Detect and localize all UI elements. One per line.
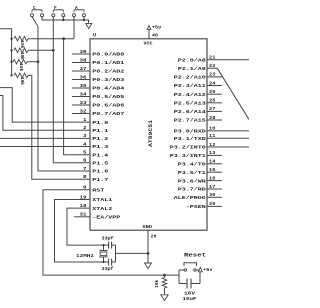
svg-text:P0.1/AD1: P0.1/AD1 [92,60,124,66]
pin stub P3 pin 17 [207,188,222,190]
svg-text:10k: 10k [19,40,24,48]
svg-text:+5v: +5v [203,267,213,273]
svg-text:40: 40 [152,32,158,38]
svg-text:AT89C51: AT89C51 [148,120,154,147]
svg-text:P2.1/A9: P2.1/A9 [178,66,206,72]
pin stub P2 pin 27 [207,110,222,112]
wire SW3 right stub [83,17,85,20]
junction SW2-rail [62,19,64,21]
svg-text:A: A [75,5,78,11]
svg-text:+5v: +5v [152,25,162,31]
svg-text:P2.4/A12: P2.4/A12 [174,92,206,98]
junction SW3-rail [83,19,85,21]
pin stub P0.0 pin 39 [72,53,90,55]
svg-text:P1.0: P1.0 [92,120,108,126]
svg-text:P2.0/A8: P2.0/A8 [178,57,206,63]
svg-text:P2.2/A10: P2.2/A10 [174,75,206,81]
svg-text:F: F [54,5,57,11]
ground symbol below pin 20 [145,263,152,269]
svg-text:P2.7/A15: P2.7/A15 [174,118,206,124]
svg-text:ALE/PROG: ALE/PROG [174,195,206,201]
pin stub P2 pin 23 [207,76,222,78]
svg-text:33pf: 33pf [102,266,114,272]
svg-text:P3.1/TXD: P3.1/TXD [174,136,206,142]
pin stub P3 pin 15 [207,171,222,173]
ground symbol below R5 [161,295,168,301]
svg-text:16V: 16V [184,290,195,296]
svg-text:P1.1: P1.1 [92,128,108,134]
pin stub P3 pin 14 [207,163,222,165]
pin stub -EA/VPP pin 31 [74,216,90,218]
IC U1 AT89C51 microcontroller body [90,39,207,230]
resistor R2 body [14,48,28,53]
svg-text:P0.2/AD2: P0.2/AD2 [92,69,124,75]
wire R2 to switch2 vertical [28,49,53,51]
pin stub P0.3 pin 36 [72,79,90,81]
wire net P1.6 vertical [38,62,90,171]
wire R3 to switch1 vertical [27,61,38,63]
svg-text:10uF: 10uF [183,296,197,302]
svg-text:P1.4: P1.4 [92,152,108,158]
svg-text:P0.4/AD4: P0.4/AD4 [92,86,124,92]
svg-text:P3.7/RD: P3.7/RD [178,187,206,193]
pin stub P3 pin 13 [207,154,222,156]
capacitor C2 33pf bottom [104,261,109,263]
wire GND pin 20 down [147,230,149,263]
wire P1.3 from left edge [0,146,90,148]
wire P1.1 from left edge [0,96,90,131]
svg-text:Reset: Reset [184,252,206,258]
junction crystal bottom [102,261,104,263]
svg-text:P3.6/WR: P3.6/WR [178,178,206,184]
svg-text:P1.3: P1.3 [92,144,108,150]
pin stub ALE/PROG pin 30 [207,196,222,198]
pin stub -PSEN pin 29 [207,205,222,207]
pin stub P0.6 pin 33 [72,104,90,106]
wire P3.2 pin 12 to right edge [207,146,249,148]
wire XTAL1 pin 19 route [55,200,104,263]
wire P3.1 pin 11 to right edge [207,137,249,139]
capacitor C3 10uF [179,283,187,285]
pin stub P3 pin 16 [207,180,222,182]
resistor R5 10k vertical [164,275,166,277]
resistor R4 body [14,73,28,78]
pin stub P2 pin 28 [207,119,222,121]
svg-text:P1.2: P1.2 [92,136,108,142]
wire P1.0 from left edge [0,88,90,123]
wire switch ground rail [42,17,89,24]
junction R2-switch2 [52,49,55,52]
svg-text:P3.3/INT1: P3.3/INT1 [170,153,206,159]
svg-text:10k: 10k [19,52,24,60]
svg-text:10k: 10k [19,77,24,85]
ground symbol switches [86,23,92,28]
pin stub P2 pin 24 [207,85,222,87]
pin stub P0.1 pin 38 [72,62,90,64]
switch SW1 (label C) [31,14,34,17]
wire SW2 left vertical / net P1.5 [53,17,90,163]
junction bus-R4 [11,74,13,76]
svg-text:XTAL1: XTAL1 [92,197,112,203]
svg-text:GND: GND [143,224,153,230]
svg-text:P0.0/AD0: P0.0/AD0 [92,52,124,58]
svg-text:XTAL2: XTAL2 [92,206,112,212]
wire P1.2 from left edge [0,137,90,139]
junction button right - +5v [199,269,202,272]
svg-text:VCC: VCC [144,40,153,46]
svg-text:P0.3/AD3: P0.3/AD3 [92,77,124,83]
resistor R3 body [13,59,27,64]
crystal X1 12MHz vertical [103,245,105,250]
wire SW3 left vertical [73,17,75,39]
resistor R1 body [14,36,28,41]
wire RST pin 9 long route [43,190,179,275]
pin stub P0.2 pin 37 [72,70,90,72]
wire power feed from left edge to bus [0,29,12,76]
push button Reset [179,269,184,271]
power +5v symbol at VCC [147,26,151,30]
pin stub P2 pin 26 [207,102,222,104]
junction crystal top [102,244,104,246]
pin stub P0.7 pin 32 [72,113,90,115]
junction node pin20-crystal [147,252,150,255]
junction bus-R2 [11,49,13,51]
junction bus-R3 [11,61,13,63]
wire P3.0 pin 10 to right edge [207,130,249,132]
wire net P1.4 vertical [64,39,90,155]
svg-text:P0.6/AD6: P0.6/AD6 [92,103,124,109]
junction RST-R5 [163,274,166,277]
svg-text:P3.4/T0: P3.4/T0 [178,162,206,168]
svg-text:10k: 10k [18,63,23,71]
svg-text:P3.2/INT0: P3.2/INT0 [170,145,206,151]
svg-text:P1.5: P1.5 [92,161,108,167]
wire SW1 left diagonal to vertical [32,17,38,62]
switch SW2 (label F) [52,14,55,17]
svg-text:P2.3/A11: P2.3/A11 [174,83,206,89]
svg-text:RST: RST [92,187,104,193]
wire P2.0 pin 21 to right edge [207,59,249,61]
svg-text:20: 20 [151,233,157,239]
junction bus-R1 [11,38,13,40]
svg-text:P1.6: P1.6 [92,169,108,175]
pin stub P2 pin 25 [207,93,222,95]
wire R1 to switch3 and P1.4 net [28,38,74,40]
wire R4 to P1.7 [28,75,90,179]
svg-text:P1.7: P1.7 [92,177,108,183]
wire VCC pin 40 stub [148,29,150,39]
wire cap mid tap to pin 20 [116,252,149,254]
power +5v symbol at reset [198,267,202,271]
wire XTAL2 pin 18 route [67,208,104,245]
svg-text:10k: 10k [155,280,160,288]
svg-text:12MHz: 12MHz [76,253,94,259]
svg-text:-PSEN: -PSEN [186,204,206,210]
svg-text:-EA/VPP: -EA/VPP [92,215,120,221]
wire SW2 right stub [62,17,64,20]
svg-text:P0.7/AD7: P0.7/AD7 [92,111,124,117]
wire caps right vertical to GND net [115,245,117,262]
junction R3-switch1 [37,60,40,63]
svg-text:P2.5/A13: P2.5/A13 [174,101,206,107]
svg-text:C: C [33,5,36,11]
pin stub P0.4 pin 35 [72,87,90,89]
capacitor C1 33pf top [104,244,109,246]
pin stub P0.5 pin 34 [72,96,90,98]
svg-text:P3.0/RXD: P3.0/RXD [174,129,206,135]
svg-text:P3.5/T1: P3.5/T1 [178,170,206,176]
svg-text:33pf: 33pf [102,236,114,242]
wire P2.1 pin 22 with diagonal [207,68,249,119]
junction R1 net to pin5 vertical [62,37,65,40]
svg-text:P2.6/A14: P2.6/A14 [174,109,206,115]
wire reset right vertical [199,268,201,284]
switch SW3 (label A) [73,14,76,17]
wire reset left vertical [178,270,180,284]
svg-text:P0.5/AD5: P0.5/AD5 [92,94,124,100]
svg-text:U: U [93,33,96,39]
